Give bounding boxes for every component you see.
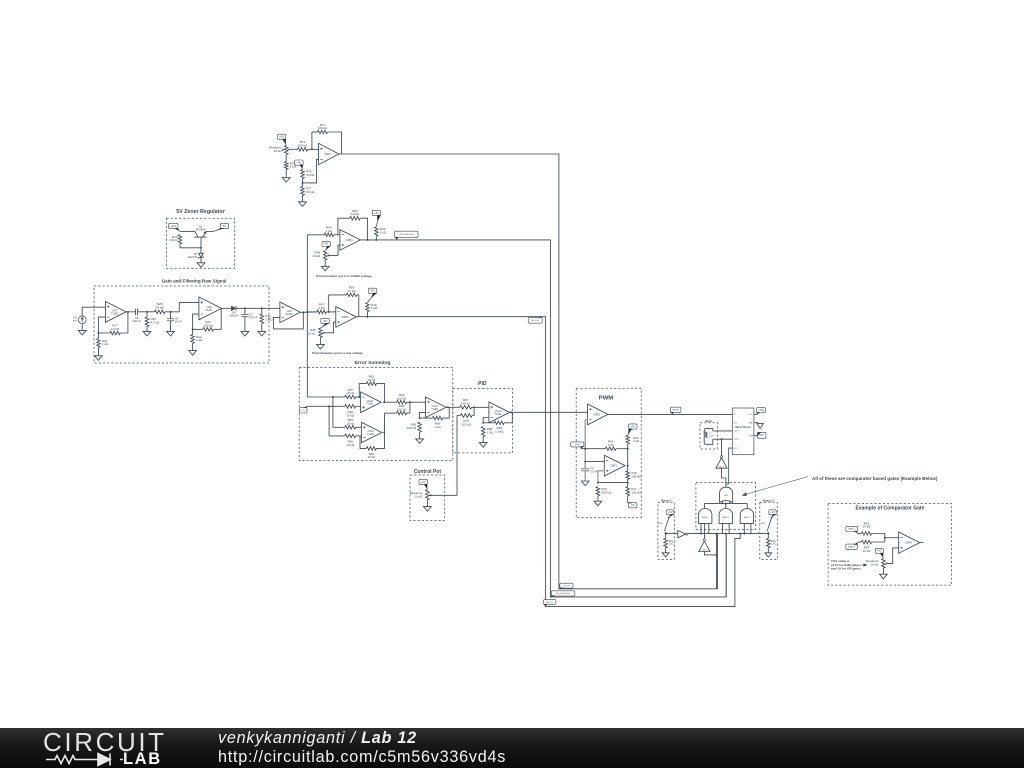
flag net label filtered [528, 317, 542, 323]
svg-text:100 kΩ: 100 kΩ [601, 490, 611, 494]
svg-text:1 kΩ: 1 kΩ [607, 443, 614, 447]
wire to ground [419, 432, 421, 439]
wire CMP5 output bus C [356, 317, 740, 607]
wire R30 to base node [180, 244, 201, 248]
node junction [302, 182, 304, 184]
wire to ground [665, 548, 667, 553]
ground [479, 443, 487, 448]
flag +5V [875, 548, 883, 553]
wire to R53 [858, 533, 862, 535]
wire R70 branch [474, 406, 475, 408]
wire [627, 479, 629, 486]
flag +12V driver [757, 408, 766, 413]
wire R70 left leg to control pot [429, 416, 460, 496]
and-gate AND1 [740, 509, 753, 524]
svg-text:4.7 kΩ: 4.7 kΩ [151, 321, 161, 325]
wire IN2 to OR [726, 448, 732, 484]
svg-text:100 kΩ: 100 kΩ [407, 426, 417, 430]
svg-text:TL081: TL081 [366, 403, 374, 406]
capacitor C6 10n [167, 318, 174, 320]
resistor R24 1k [97, 339, 101, 348]
wire AND2 mid to Not3 [703, 523, 705, 538]
svg-text:+5V: +5V [630, 424, 635, 428]
ground [258, 331, 266, 336]
potentiometer R48 10k [319, 328, 323, 337]
svg-text:1 kΩ: 1 kΩ [771, 543, 776, 546]
ground [424, 507, 432, 512]
svg-text:1 kΩ: 1 kΩ [326, 229, 333, 233]
wire bus to R47 [307, 311, 317, 313]
resistor R36 1k [626, 435, 630, 444]
wire to output [376, 413, 384, 448]
node junction [627, 465, 629, 467]
resistor R47 1k [317, 310, 326, 314]
svg-text:sin: sin [73, 319, 77, 323]
node bus junction [306, 311, 308, 313]
wire [328, 406, 330, 436]
resistor R58 10k [345, 405, 356, 409]
svg-text:1 MΩ: 1 MΩ [265, 318, 273, 322]
flag +5V [419, 479, 427, 484]
resistor R47b 100k [626, 487, 630, 496]
flag ControlV [571, 442, 584, 447]
svg-text:Button 2: Button 2 [763, 498, 774, 502]
wire OA13 - input [483, 418, 489, 423]
svg-text:+5V: +5V [323, 319, 328, 323]
op-amp CMP1 [604, 455, 625, 476]
wire R36 to node [627, 444, 629, 449]
wire Not1 input to OR [722, 468, 726, 487]
resistor R46b 100k [626, 471, 630, 479]
wire C8 to node [138, 311, 155, 313]
svg-text:1 kΩ: 1 kΩ [487, 431, 494, 435]
wire to R54 [858, 541, 861, 543]
ground [594, 501, 602, 506]
transistor Q1 2N3904 [194, 236, 207, 238]
svg-text:+12V: +12V [170, 224, 176, 228]
resistor R43 1M [260, 314, 264, 324]
svg-text:VM: VM [750, 436, 753, 438]
wire to AND3 [725, 504, 727, 509]
wire motor to OUT2 [713, 438, 733, 440]
svg-text:Mtr off: Mtr off [563, 585, 569, 588]
resistor R74 100k [318, 130, 328, 134]
resistor R25 4.7k [145, 317, 149, 327]
wire to output node [375, 236, 377, 240]
wire VM to flag [754, 435, 758, 437]
box Button 1 [658, 502, 674, 559]
resistor R30 240 [178, 235, 182, 244]
node junction [419, 417, 421, 419]
wire to ground [244, 317, 246, 332]
svg-text:100 kΩ: 100 kΩ [631, 474, 641, 478]
wire node down to CMP1 out [627, 449, 629, 471]
capacitor C7 470n [241, 314, 248, 316]
ground [317, 344, 325, 349]
wire bus B rise [725, 534, 727, 597]
wire [312, 131, 318, 133]
resistor R50 10k [350, 216, 360, 220]
potentiometer R46 10k [323, 251, 327, 260]
wire bus into box [307, 396, 333, 398]
svg-text:Motor: Motor [705, 420, 712, 423]
wire to ground [192, 344, 194, 351]
svg-text:100 kΩ: 100 kΩ [397, 397, 407, 401]
resistor R63 100k [397, 400, 407, 404]
wire wiper to R73 [288, 148, 298, 150]
wire OA12 - input [420, 412, 426, 418]
node OA10 output [383, 401, 385, 403]
wire OA10 out to R63 [384, 401, 397, 403]
resistor R70 100k [461, 414, 473, 418]
svg-text:1 μH: 1 μH [709, 436, 714, 438]
wire OR input stubs [722, 502, 724, 504]
and-gate AND2 [699, 508, 712, 523]
resistor R51 1k [664, 538, 668, 547]
wire pot to ground [319, 337, 321, 344]
resistor R69 3.3k [494, 421, 504, 425]
wire to output [443, 407, 450, 418]
wire to OA10 [356, 396, 361, 398]
svg-text:+5V: +5V [421, 480, 426, 484]
wire feedback CMP5 [329, 295, 347, 312]
resistor R44 1k [324, 233, 333, 237]
box PWM [576, 388, 641, 518]
resistor R45 1k [375, 227, 379, 236]
svg-text:100 nF: 100 nF [132, 319, 141, 323]
op-amp CMP7 [319, 143, 339, 164]
wire to node [407, 401, 410, 403]
op-amp OA13 TL081 [489, 402, 510, 423]
svg-text:+5V: +5V [374, 211, 379, 215]
svg-text:10 kΩ: 10 kΩ [870, 562, 879, 566]
wire collector [180, 230, 195, 232]
wire feedback OA9 [273, 312, 303, 329]
wire bus to R44 [307, 234, 324, 236]
wire to R43 [261, 308, 263, 314]
potentiometer Resistor3 10k [284, 146, 288, 155]
flag +5V [629, 424, 637, 429]
wire down to second pair [332, 397, 334, 427]
resistor R61 10k [366, 382, 376, 386]
svg-text:IN 1: IN 1 [734, 423, 737, 425]
wire motor to OUT1 [713, 430, 733, 432]
node junction [244, 307, 246, 309]
node junction [473, 406, 475, 408]
svg-text:10 kΩ: 10 kΩ [111, 327, 120, 331]
svg-text:SW1: SW1 [658, 523, 664, 525]
box zener regulator [166, 218, 234, 268]
svg-text:CMP2: CMP2 [593, 413, 601, 416]
wire to R24 [97, 333, 99, 339]
wire source to opamp [82, 307, 105, 316]
resistor R26 82k [155, 310, 165, 314]
svg-text:100 kΩ: 100 kΩ [631, 490, 641, 494]
wire OA12 output to PID [446, 406, 460, 408]
wire CMP2 - input down (gray net) [585, 419, 587, 421]
svg-text:5V Zener Regulator: 5V Zener Regulator [176, 209, 225, 215]
wire AND1 input stubs [743, 523, 745, 533]
svg-text:10 kΩ: 10 kΩ [348, 289, 357, 293]
wire VCC to flag [754, 413, 757, 415]
wire switch node [767, 533, 769, 539]
wire to OA11 - [356, 435, 362, 437]
box gain and filtering [94, 286, 269, 363]
wire feedback OA11 [360, 436, 366, 449]
resistor R42 1k [191, 335, 195, 344]
wire zener to ground [200, 257, 202, 262]
resistor R73 100k [298, 148, 308, 152]
box control pot [410, 475, 445, 520]
wire feedback OA7 [98, 317, 109, 333]
svg-text:100 kΩ: 100 kΩ [203, 323, 213, 327]
svg-text:100 kΩ: 100 kΩ [461, 401, 471, 405]
wire GND pin [754, 422, 758, 424]
svg-text:2N3904: 2N3904 [196, 228, 206, 232]
resistor R59 10k [345, 426, 356, 430]
svg-text:GND: GND [748, 423, 753, 425]
wire R73 to opamp input [308, 148, 319, 150]
svg-text:TL081: TL081 [431, 408, 439, 411]
wire CMP4 output bus B [360, 240, 726, 597]
and-gate AND3 [719, 508, 732, 523]
flag Dir bus C [544, 600, 556, 605]
svg-text:TL081: TL081 [206, 309, 214, 312]
svg-text:100 kΩ: 100 kΩ [462, 422, 472, 426]
wire to -5V flag [627, 496, 629, 503]
footer bar [0, 728, 1024, 768]
svg-text:Button 1: Button 1 [661, 498, 672, 502]
wire to ground [170, 321, 172, 332]
wire bus A from CMP7 output [339, 154, 718, 589]
node junction [482, 422, 484, 424]
ground [95, 356, 103, 361]
wire OA8 output to diode [222, 307, 232, 309]
node junction [597, 482, 599, 484]
svg-text:Error Summing: Error Summing [355, 360, 391, 366]
svg-text:Gain and Filtering Raw Signal: Gain and Filtering Raw Signal [162, 279, 227, 284]
wire feedback to output [328, 132, 342, 154]
svg-text:10 kΩ: 10 kΩ [306, 173, 315, 177]
resistor R76 10k [301, 170, 305, 179]
op-amp CMP2 [588, 404, 608, 425]
wire to C7 [244, 308, 246, 314]
svg-text:1 kΩ: 1 kΩ [633, 439, 640, 443]
svg-text:SW2: SW2 [761, 523, 767, 525]
svg-text:TL081: TL081 [367, 433, 375, 436]
node OA12 output [447, 406, 449, 408]
resistor R52 1k [767, 538, 771, 547]
wire feedback CMP4 [338, 218, 350, 235]
svg-text:10 kΩ: 10 kΩ [863, 549, 872, 553]
svg-text:+5V: +5V [668, 510, 673, 514]
svg-text:Potentiometer put to a low vol: Potentiometer put to a low voltage [312, 351, 363, 355]
svg-text:5V: 5V [223, 224, 226, 228]
wire inverter to OUT2 [721, 439, 723, 455]
resistor R45b 100k [596, 487, 600, 496]
op-amp OA9 TL081 [280, 302, 301, 323]
node junction [332, 396, 334, 398]
wire source to ground [81, 324, 83, 331]
wire to OA10 + [356, 405, 361, 407]
node junction [366, 316, 368, 318]
svg-text:1 kΩ: 1 kΩ [371, 306, 378, 310]
flag +5V [666, 510, 673, 515]
svg-text:CMP4: CMP4 [346, 239, 354, 242]
svg-text:All of these are comparator ba: All of these are comparator based gates … [812, 476, 938, 481]
motor symbol L1 [704, 429, 713, 445]
svg-text:100 kΩ: 100 kΩ [318, 126, 328, 130]
svg-text:CMP1: CMP1 [610, 465, 618, 468]
wire control rail [581, 448, 606, 450]
wire wiper to + input [325, 322, 336, 333]
node junction [584, 460, 586, 462]
svg-text:AND3: AND3 [723, 516, 729, 519]
or-gate OR1 [720, 487, 733, 502]
resistor R49 1k [366, 303, 370, 312]
svg-text:CMP6: CMP6 [905, 542, 913, 545]
op-amp CMP5 [336, 307, 357, 328]
svg-text:+12V: +12V [758, 408, 764, 412]
svg-text:10 kΩ: 10 kΩ [306, 190, 315, 194]
resistor R60 10k [345, 434, 356, 438]
wire to R69 [483, 422, 494, 424]
node junction [261, 307, 263, 309]
wire feedback up [311, 132, 313, 149]
ground [241, 331, 249, 336]
svg-text:Input 2: Input 2 [848, 546, 856, 549]
wire OR inputs rail [704, 503, 747, 505]
svg-text:Example of Comparator Gate: Example of Comparator Gate [855, 506, 924, 512]
inverter Not 2 inline [678, 530, 686, 537]
svg-text:10 kΩ: 10 kΩ [863, 525, 872, 529]
node junction [192, 328, 194, 330]
wire to ground [767, 548, 769, 553]
flag +5V [368, 288, 376, 293]
svg-text:1N914: 1N914 [229, 314, 238, 318]
wire R70 up to node [472, 407, 474, 415]
wire to ground [261, 324, 263, 332]
wire to R60 [329, 435, 345, 437]
svg-text:10 kΩ: 10 kΩ [351, 212, 360, 216]
svg-text:1 kΩ: 1 kΩ [196, 338, 203, 342]
node junction base [200, 247, 202, 249]
svg-text:IN 2: IN 2 [734, 448, 737, 450]
svg-text:1 kΩ: 1 kΩ [434, 425, 441, 429]
svg-text:1 kΩ: 1 kΩ [102, 342, 109, 346]
switch SW2 [767, 518, 772, 531]
resistor R64 100k [397, 411, 407, 415]
arrow to pot [860, 564, 864, 566]
wire to R25 [146, 312, 148, 317]
ground [282, 178, 290, 183]
ground [662, 553, 669, 557]
svg-text:PID: PID [478, 381, 487, 387]
node junction [170, 311, 172, 313]
wire wiper to + input [329, 245, 340, 255]
wire diode to node [236, 307, 262, 309]
CircuitLab logo [43, 727, 167, 758]
svg-text:Input 1: Input 1 [848, 528, 856, 531]
wire divider node [302, 179, 304, 187]
svg-text:LB_plSetPoint1: LB_plSetPoint1 [556, 592, 571, 595]
flag Input 2 [846, 544, 858, 549]
svg-text:Potentiometer put to a middle: Potentiometer put to a middle voltage [316, 274, 372, 278]
wire to inverting input [303, 159, 319, 183]
resistor R66 1k [433, 416, 443, 420]
svg-text:+5V: +5V [877, 549, 882, 553]
wire pot to ground [426, 500, 428, 507]
inverter Not 1 [716, 458, 727, 468]
wire PID output to PWM [510, 411, 588, 413]
wire feedback OA10 [359, 384, 366, 397]
switch SW1 [664, 518, 668, 531]
arrow annotation [744, 477, 809, 495]
op-amp CMP4 [340, 230, 361, 251]
logo resistor diode art [46, 754, 123, 766]
flag 5V out [220, 223, 228, 228]
svg-text:10 kΩ: 10 kΩ [346, 413, 355, 417]
svg-text:82 kΩ: 82 kΩ [156, 306, 165, 310]
wire feedback to output [360, 218, 367, 240]
resistor R41 100k [203, 328, 213, 332]
svg-text:CtrlV: CtrlV [575, 443, 580, 446]
wire bus A rise [715, 534, 717, 589]
svg-text:CMP7: CMP7 [324, 153, 332, 156]
flag +5V (top pot supply) [277, 134, 285, 139]
node OA11 output [383, 432, 385, 434]
resistor R77 10k [301, 187, 305, 196]
svg-text:10 kΩ: 10 kΩ [346, 443, 355, 447]
svg-text:1N4733: 1N4733 [187, 255, 197, 259]
diode D4 1N914 [231, 306, 236, 311]
flag PWM net [670, 407, 681, 412]
node junction [409, 401, 411, 403]
wire to ground [597, 496, 599, 501]
wire to output [120, 312, 128, 333]
svg-text:470 nF: 470 nF [249, 316, 258, 320]
flag +5V pot [321, 318, 329, 323]
flag input net [299, 407, 307, 413]
ground [299, 202, 307, 207]
op-amp OA12 TL081 [425, 397, 446, 418]
flag +5V [769, 510, 776, 515]
svg-text:10 kΩ: 10 kΩ [367, 455, 376, 459]
svg-text:TL081: TL081 [286, 313, 294, 316]
svg-text:1 kΩ: 1 kΩ [318, 306, 325, 310]
svg-text:10 nF: 10 nF [175, 320, 182, 324]
wire to ground [285, 170, 287, 178]
wire rail continue [688, 533, 769, 535]
wire to ground [302, 196, 304, 202]
wire to ground [97, 348, 99, 356]
wire CMP2 output [608, 413, 732, 415]
ground [197, 263, 205, 268]
flag 12V motor supply [757, 432, 766, 438]
ground [880, 574, 888, 579]
node junction [584, 448, 586, 450]
svg-text:+5V: +5V [770, 510, 775, 514]
node junction [97, 332, 99, 334]
node junction [884, 537, 886, 539]
flag +12V [169, 223, 178, 228]
flag +5V [372, 210, 380, 215]
resistor R67 100k [460, 406, 472, 410]
capacitor C8 100n [135, 309, 137, 316]
wire to CMP5 [326, 311, 335, 313]
svg-text:240 Ω: 240 Ω [169, 238, 178, 242]
ground [189, 351, 197, 356]
